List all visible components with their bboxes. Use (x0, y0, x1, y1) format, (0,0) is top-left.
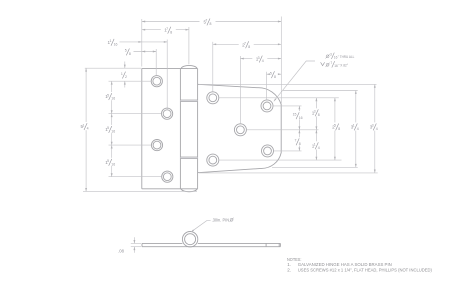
dim overall width 5-7/8 (142, 18, 281, 26)
svg-text:7: 7 (244, 42, 246, 46)
svg-text:1.: 1. (287, 262, 291, 267)
extension lines (83, 17, 378, 192)
svg-text:4: 4 (376, 127, 378, 131)
leaf screw hole 2 (162, 108, 173, 119)
leaf screw hole 3 (151, 140, 162, 151)
svg-text:3: 3 (314, 110, 316, 114)
strap leaf outline (198, 84, 282, 172)
svg-text:7: 7 (330, 61, 332, 65)
svg-text:3: 3 (258, 56, 260, 60)
strap hole bottom-right (262, 145, 274, 157)
svg-text:15: 15 (293, 112, 297, 116)
svg-text:5: 5 (125, 49, 127, 53)
svg-text:GALVANIZED HINGE HAS A SOLID B: GALVANIZED HINGE HAS A SOLID BRASS PIN (298, 262, 392, 267)
svg-text:1: 1 (82, 123, 84, 127)
svg-text:8: 8 (248, 45, 250, 49)
svg-text:1: 1 (314, 143, 316, 147)
dim strap top 1-3/4 (240, 55, 281, 63)
dim leaf hole chain 1-3/8 x3 (105, 81, 117, 177)
svg-text:5: 5 (107, 159, 109, 163)
svg-text:8: 8 (210, 22, 212, 26)
svg-text:8: 8 (170, 30, 172, 34)
svg-text:7: 7 (166, 27, 168, 31)
svg-text:" X 82°: " X 82° (338, 63, 348, 67)
leaf screw hole 1 (151, 76, 162, 87)
leaf screw hole 4 (162, 171, 173, 182)
dim right chain inner (293, 106, 304, 151)
dim strap top 2-7/8 (213, 41, 281, 49)
svg-text:16: 16 (114, 43, 118, 47)
left leaf plate outline (142, 69, 198, 189)
barrel left edge (179, 69, 181, 189)
svg-text:3: 3 (330, 53, 332, 57)
barrel knuckle joint upper (180, 100, 197, 102)
dim top edge to hole 1/2 (121, 62, 127, 88)
barrel bottom dome cap (181, 189, 197, 192)
svg-text:5: 5 (334, 124, 336, 128)
svg-text:.08: .08 (118, 248, 124, 253)
dim right edge span 3-1/4 (351, 91, 362, 168)
countersunk hole callout (274, 53, 355, 102)
svg-text:8: 8 (338, 127, 340, 131)
svg-text:5: 5 (270, 71, 272, 75)
svg-text:16: 16 (299, 116, 303, 120)
side view pin knuckle (182, 232, 197, 247)
dim right holes span 2-5/8 (330, 98, 341, 160)
dim col2 1-1/16 (108, 39, 168, 47)
svg-text:1: 1 (121, 72, 123, 76)
svg-text:4: 4 (87, 127, 89, 131)
svg-text:4: 4 (318, 146, 320, 150)
dim col1 5/8 (125, 49, 156, 57)
svg-text:2.: 2. (287, 267, 291, 272)
svg-text:8: 8 (318, 113, 320, 117)
svg-text:4: 4 (262, 59, 264, 63)
svg-text:USES SCREWS #12 x 1 1/4", FLAT: USES SCREWS #12 x 1 1/4", FLAT HEAD, PHI… (298, 267, 433, 272)
svg-text:1: 1 (109, 39, 111, 43)
svg-text:4: 4 (357, 127, 359, 131)
svg-text:1: 1 (353, 124, 355, 128)
strap hole top-left (207, 92, 219, 104)
svg-text:7: 7 (205, 19, 207, 23)
svg-text:16: 16 (111, 163, 115, 167)
svg-text:7: 7 (295, 139, 297, 143)
dim strap height 3-3/4 (370, 84, 381, 172)
dim strap top 5/8 (267, 70, 282, 78)
svg-text:" THRU ALL: " THRU ALL (338, 55, 355, 59)
svg-text:16: 16 (111, 97, 115, 101)
dim right chain outer (311, 98, 322, 160)
barrel right edge (197, 69, 199, 189)
svg-text:.30in. PIN: .30in. PIN (212, 217, 230, 222)
notes block (287, 257, 432, 272)
strap hole bottom-left (207, 154, 219, 166)
dim overall height 5-1/4 (81, 68, 92, 191)
svg-text:2: 2 (125, 75, 127, 79)
strap hole top-right (261, 100, 273, 112)
dim leaf width 1-7/8 (142, 26, 189, 34)
plate thickness dim .08 (118, 237, 141, 253)
svg-text:8: 8 (129, 52, 131, 56)
svg-text:16: 16 (111, 130, 115, 134)
svg-text:5: 5 (107, 126, 109, 130)
svg-text:5: 5 (107, 93, 109, 97)
svg-text:8: 8 (274, 75, 276, 79)
pin diameter leader .30in (191, 217, 234, 232)
strap hole middle (234, 124, 246, 136)
side view hinge plate (142, 243, 280, 246)
barrel knuckle joint lower (180, 157, 197, 159)
svg-text:3: 3 (372, 124, 374, 128)
svg-text:8: 8 (299, 142, 301, 146)
barrel top dome cap (181, 65, 197, 68)
